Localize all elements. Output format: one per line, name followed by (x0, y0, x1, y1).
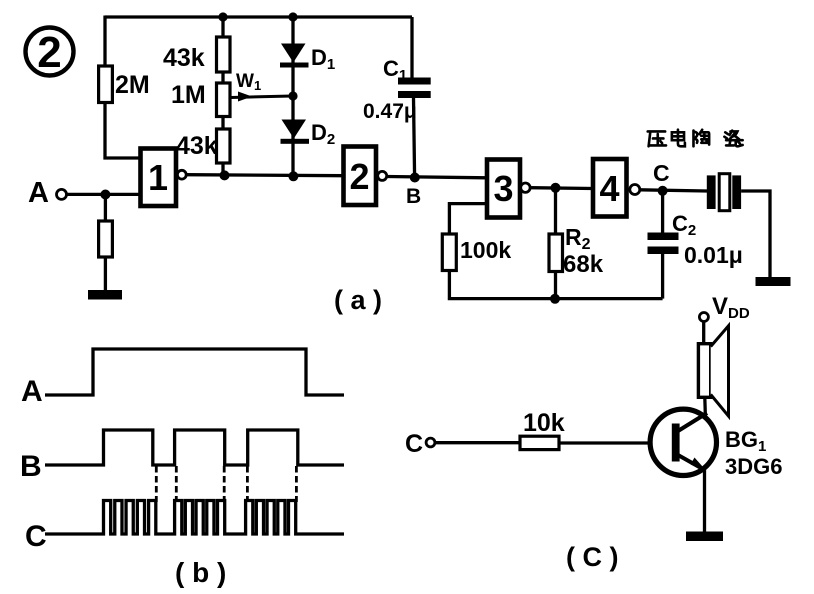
resistor 100k (442, 234, 456, 271)
svg-text:( b ): ( b ) (175, 557, 226, 588)
label piezoelectric ceramic (Chinese) (648, 130, 743, 147)
svg-text:A: A (28, 177, 49, 209)
dashed timing guide lines (156, 466, 296, 502)
wire C to 10k (435, 441, 520, 444)
wire top supply rail (105, 15, 412, 18)
svg-text:0.47μ: 0.47μ (363, 100, 417, 123)
svg-text:( C ): ( C ) (566, 542, 618, 572)
svg-text:100k: 100k (460, 237, 511, 263)
node junction 43k chain bottom (220, 170, 230, 180)
ground emitter (686, 532, 723, 542)
resistor input pulldown (99, 221, 113, 257)
capacitor C1 (398, 17, 431, 178)
waveform A trace (45, 349, 344, 395)
svg-text:43k: 43k (163, 44, 205, 72)
svg-text:B: B (20, 450, 42, 483)
wire gate2 output to gate3 input, node B (387, 177, 487, 178)
svg-text:2: 2 (37, 28, 61, 77)
svg-text:3DG6: 3DG6 (725, 454, 782, 479)
resistor 43k lower (217, 129, 231, 163)
wire 100k to bottom rail (449, 271, 662, 299)
figure number badge 2 (26, 28, 74, 78)
inverter gate U2 (344, 147, 387, 206)
resistor 10k (520, 436, 559, 449)
resistor R2 68k (549, 234, 563, 272)
svg-text:3: 3 (493, 168, 513, 209)
svg-text:( a ): ( a ) (334, 285, 382, 315)
svg-text:2: 2 (349, 156, 369, 197)
svg-text:B: B (406, 185, 421, 208)
piezo ceramic transducer (707, 174, 741, 211)
inverter gate U4 (593, 159, 640, 217)
svg-text:1M: 1M (171, 81, 206, 109)
wire between 43k and 1M (221, 72, 224, 83)
svg-text:43k: 43k (176, 132, 218, 160)
wire A input (67, 193, 140, 196)
potentiometer W1 track 1M (217, 83, 231, 117)
potentiometer wiper W1 arrow (231, 92, 292, 102)
wire 2M bottom to gate1 upper input (105, 103, 140, 159)
node junction C (658, 186, 668, 196)
wire gate3 output to gate4 input (530, 186, 592, 190)
diode D2 (281, 120, 310, 144)
svg-text:C: C (653, 160, 670, 186)
wire piezo to ground (741, 191, 770, 278)
svg-text:C: C (405, 430, 423, 458)
wire collector to speaker (703, 397, 707, 414)
node junction wiper / diode chain (288, 91, 297, 100)
wire gate4 output to piezo, node C (640, 190, 707, 191)
ground right (756, 277, 791, 286)
wire 2M top branch (103, 16, 106, 67)
svg-text:C: C (25, 520, 47, 553)
inverter gate U3 (487, 160, 530, 218)
node junction A (100, 190, 110, 200)
wire to ground (104, 257, 107, 291)
waveform B trace (45, 430, 344, 465)
wire 43k lower bottom to output node (221, 163, 224, 177)
svg-text:10k: 10k (523, 409, 565, 437)
node junction B (410, 173, 420, 183)
node junction R2 bottom rail (550, 294, 560, 304)
wire R2 branch (554, 188, 557, 234)
wire diode chain vertical (291, 16, 294, 178)
wire R2 to bottom rail (554, 272, 557, 300)
wire 10k to transistor base (559, 441, 650, 444)
waveform C trace with tone bursts (45, 501, 344, 535)
svg-text:2M: 2M (115, 71, 150, 99)
svg-text:1: 1 (148, 157, 168, 198)
inverter gate U1 (141, 149, 187, 207)
ground (88, 290, 122, 300)
svg-text:A: A (21, 375, 43, 408)
node junction diode chain bottom (288, 171, 298, 181)
resistor 43k upper (217, 37, 231, 72)
wire gate1 output to gate2 input (186, 175, 343, 176)
resistor R 2M (99, 66, 113, 103)
wire A junction down (104, 195, 107, 222)
node junction top rail / 43k chain (218, 12, 227, 21)
wire 100k feedback from gate3 lower input (449, 204, 487, 234)
diode D1 (280, 44, 309, 68)
node junction top rail / diode chain (288, 12, 297, 21)
terminal C input of amplifier (405, 430, 435, 458)
wire between 1M and 43k lower (221, 117, 224, 130)
svg-text:68k: 68k (563, 251, 604, 278)
capacitor C2 (648, 191, 679, 299)
speaker (698, 326, 728, 416)
wire 43k chain top (221, 16, 224, 38)
wire VDD to speaker (702, 322, 705, 344)
transistor Q1 BG1 3DG6 (650, 409, 716, 475)
svg-text:0.01μ: 0.01μ (684, 242, 743, 268)
terminal VDD (699, 293, 749, 322)
node junction gate3 output / R2 (551, 183, 561, 193)
wire emitter to ground (703, 471, 706, 533)
terminal A (28, 177, 67, 209)
svg-text:4: 4 (599, 168, 619, 209)
